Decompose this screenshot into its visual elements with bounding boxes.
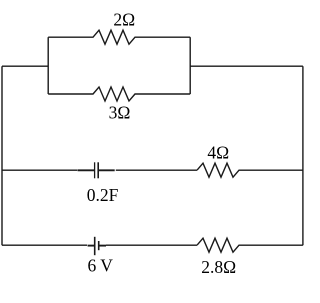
- svg-text:6 V: 6 V: [87, 255, 113, 275]
- svg-text:4Ω: 4Ω: [207, 142, 229, 162]
- svg-text:0.2F: 0.2F: [87, 185, 119, 205]
- svg-text:2.8Ω: 2.8Ω: [201, 257, 236, 277]
- svg-text:2Ω: 2Ω: [113, 10, 135, 30]
- svg-text:3Ω: 3Ω: [109, 103, 131, 123]
